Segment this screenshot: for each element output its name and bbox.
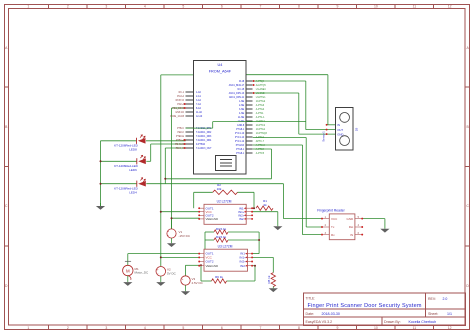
svg-text:Rst: Rst xyxy=(349,225,354,229)
svg-text:A-PTG4: A-PTG4 xyxy=(256,108,265,111)
svg-text:IN2-: IN2- xyxy=(239,217,245,221)
svg-text:U1-PTG1: U1-PTG1 xyxy=(256,97,266,99)
svg-text:9-PTB10: 9-PTB10 xyxy=(196,144,206,146)
svg-text:PYC1-14: PYC1-14 xyxy=(235,137,245,139)
svg-text:10-PTG2: 10-PTG2 xyxy=(256,101,266,103)
svg-text:C: C xyxy=(466,204,469,208)
svg-text:Tx: Tx xyxy=(331,225,335,229)
svg-text:M: M xyxy=(126,268,130,273)
svg-text:2018-03-30: 2018-03-30 xyxy=(322,312,340,316)
svg-text:10: 10 xyxy=(374,5,378,9)
svg-text:A-PTC-8: A-PTC-8 xyxy=(256,144,266,147)
U3 input pin arrows xyxy=(245,253,247,267)
title block frame xyxy=(303,293,465,325)
svg-text:PTB-C: PTB-C xyxy=(177,128,184,130)
svg-text:GND: GND xyxy=(347,217,355,221)
svg-text:1: 1 xyxy=(27,5,29,9)
voltage source V3 xyxy=(181,276,190,285)
ground: near U2 xyxy=(273,226,282,230)
resistor R1 xyxy=(256,206,273,210)
svg-text:APTC-7: APTC-7 xyxy=(256,140,265,143)
svg-text:LED8: LED8 xyxy=(129,148,137,152)
svg-text:PTG8-1: PTG8-1 xyxy=(236,129,245,131)
MCU left pin names xyxy=(196,91,212,150)
svg-text:2: 2 xyxy=(67,326,69,330)
svg-text:PC0E_1N-1B: PC0E_1N-1B xyxy=(170,116,184,118)
svg-text:12: 12 xyxy=(448,326,452,330)
svg-text:1/1: 1/1 xyxy=(447,312,452,316)
svg-text:T-0ADC1_DR2: T-0ADC1_DR2 xyxy=(196,131,212,134)
svg-text:6: 6 xyxy=(221,326,223,330)
svg-text:R8 1k: R8 1k xyxy=(267,275,271,283)
svg-text:B: B xyxy=(5,125,8,129)
svg-text:R4 5.1k: R4 5.1k xyxy=(216,235,227,239)
svg-text:5V DC: 5V DC xyxy=(167,271,177,275)
svg-text:IN: IN xyxy=(350,233,353,237)
svg-text:A-PTQ4: A-PTQ4 xyxy=(256,80,265,83)
resistor R2 xyxy=(213,190,238,194)
MCU right net labels xyxy=(256,80,268,155)
svg-text:Kocelia Cherfouh: Kocelia Cherfouh xyxy=(409,320,437,324)
svg-text:U3 L272M: U3 L272M xyxy=(218,245,233,249)
ground: M1 xyxy=(127,276,129,282)
svg-text:PD2-A: PD2-A xyxy=(177,103,184,106)
svg-text:T-0ADC1_DR3: T-0ADC1_DR3 xyxy=(196,135,212,138)
svg-text:8-A2: 8-A2 xyxy=(196,107,202,110)
ground: V3 xyxy=(185,285,187,291)
svg-text:RKST-R: RKST-R xyxy=(176,100,185,102)
svg-text:AA-PTQ5: AA-PTQ5 xyxy=(256,84,267,87)
U2 input pin arrows xyxy=(244,207,246,220)
svg-text:A-PTC4: A-PTC4 xyxy=(256,148,265,151)
svg-text:LED6: LED6 xyxy=(129,168,137,172)
svg-text:U2 L272M: U2 L272M xyxy=(217,200,232,204)
svg-text:U1-GNE: U1-GNE xyxy=(256,93,265,95)
junction dots xyxy=(100,160,102,162)
svg-text:PTG8-1: PTG8-1 xyxy=(236,153,245,155)
svg-text:A-PTG1: A-PTG1 xyxy=(256,136,265,139)
svg-text:11-NE: 11-NE xyxy=(238,117,245,119)
fingerprint reader pin names xyxy=(331,217,354,237)
svg-text:8: 8 xyxy=(298,326,300,330)
svg-text:R6 1k: R6 1k xyxy=(215,275,223,279)
ground: LED bus xyxy=(100,203,102,206)
svg-text:10-PTC2: 10-PTC2 xyxy=(256,125,266,127)
fingerprint reader unconnected flags xyxy=(321,218,323,220)
svg-text:A: A xyxy=(5,46,8,50)
svg-text:5: 5 xyxy=(182,5,184,9)
svg-text:2-NE: 2-NE xyxy=(239,105,245,107)
svg-text:GND: GND xyxy=(337,132,343,136)
voltage source V1 xyxy=(167,229,176,238)
svg-text:4: 4 xyxy=(144,326,146,330)
svg-text:T-1ADC3_OUT: T-1ADC3_OUT xyxy=(196,147,212,150)
wire: MCU left pin crossing chip body to connector OUT riser xyxy=(186,122,306,129)
svg-text:PE0-F: PE0-F xyxy=(177,132,184,134)
ground: fingerprint GND xyxy=(380,229,389,233)
svg-text:FROM_A64F: FROM_A64F xyxy=(209,70,232,74)
U2 pin stubs xyxy=(200,208,252,219)
svg-text:1B: 1B xyxy=(355,128,359,132)
svg-text:7-A2: 7-A2 xyxy=(196,103,202,106)
resistor R6 xyxy=(212,279,227,283)
svg-text:ANC1_DRV-13: ANC1_DRV-13 xyxy=(229,92,245,95)
resistor R3 xyxy=(214,230,228,234)
svg-text:2: 2 xyxy=(67,5,69,9)
svg-text:PYC1-12: PYC1-12 xyxy=(235,141,245,143)
MCU left pin stubs xyxy=(186,92,194,148)
MCU right pin stubs xyxy=(246,81,253,153)
svg-text:4-NE: 4-NE xyxy=(239,113,245,115)
svg-text:7: 7 xyxy=(259,326,261,330)
MCU U4 FROM_A64F body xyxy=(194,61,247,175)
svg-text:OUT: OUT xyxy=(337,128,343,132)
resistor R4 xyxy=(214,238,228,242)
connector P1 body xyxy=(336,108,354,151)
svg-text:10-PTG1: 10-PTG1 xyxy=(256,129,266,131)
svg-text:2.0: 2.0 xyxy=(443,297,448,301)
svg-text:11-A0: 11-A0 xyxy=(196,111,203,114)
svg-text:M-18: M-18 xyxy=(239,81,245,83)
svg-text:2-A1: 2-A1 xyxy=(196,95,202,98)
MCU left outside pin numbers xyxy=(170,92,185,150)
svg-text:−: − xyxy=(157,272,159,276)
wire: fingerprint GND to ground xyxy=(101,75,385,289)
svg-text:A-PT1-1: A-PT1-1 xyxy=(256,116,265,119)
svg-text:Fingerprint Reader: Fingerprint Reader xyxy=(317,208,345,212)
svg-text:D: D xyxy=(466,284,469,288)
svg-text:VEEGND: VEEGND xyxy=(206,217,220,221)
svg-text:12-A0: 12-A0 xyxy=(196,115,203,118)
svg-text:EasyEDA V5.3.2: EasyEDA V5.3.2 xyxy=(306,320,333,324)
ground: R8 xyxy=(269,288,278,292)
motor M1 shaft curl xyxy=(128,276,131,280)
svg-text:1-NE: 1-NE xyxy=(239,101,245,103)
U2 pin unconnected flags xyxy=(198,207,200,209)
MCU unconnected pin flags xyxy=(253,80,255,82)
svg-text:3-NE: 3-NE xyxy=(239,109,245,111)
svg-text:D: D xyxy=(5,284,8,288)
svg-text:VCC: VCC xyxy=(331,217,338,221)
svg-text:−: − xyxy=(167,234,169,238)
motor M1 xyxy=(123,265,133,275)
svg-text:NC-15: NC-15 xyxy=(238,89,245,91)
svg-text:11: 11 xyxy=(413,326,417,330)
svg-text:4: 4 xyxy=(144,5,146,9)
connector P1 mounting hole bottom xyxy=(340,136,350,146)
svg-text:−: − xyxy=(182,281,184,285)
svg-text:Sensor1: Sensor1 xyxy=(321,131,325,142)
svg-text:Drawn By:: Drawn By: xyxy=(384,320,401,324)
svg-text:3: 3 xyxy=(105,326,107,330)
svg-text:Finger Print Scanner Door Secu: Finger Print Scanner Door Security Syste… xyxy=(308,303,422,309)
op-amp U2 L272M body xyxy=(204,204,246,224)
svg-text:VEEGND: VEEGND xyxy=(206,264,220,268)
svg-text:PTG8-1: PTG8-1 xyxy=(236,149,245,151)
connector P1 mounting hole top xyxy=(340,113,350,123)
svg-text:4.5V DC: 4.5V DC xyxy=(192,281,204,285)
svg-text:6: 6 xyxy=(221,5,223,9)
ground: V1 xyxy=(171,238,173,243)
voltage source V2 xyxy=(156,267,166,277)
svg-text:PTG8-R: PTG8-R xyxy=(236,145,245,147)
svg-text:R3 5.1k: R3 5.1k xyxy=(216,227,227,231)
svg-text:REV:: REV: xyxy=(428,297,436,301)
svg-text:9: 9 xyxy=(336,326,338,330)
MCU crystal block xyxy=(216,156,237,171)
svg-text:U1-ANE4: U1-ANE4 xyxy=(256,88,266,91)
svg-text:Rx: Rx xyxy=(331,233,335,237)
svg-text:A-PT11: A-PT11 xyxy=(256,112,264,115)
svg-text:T-0ADC1_DR1: T-0ADC1_DR1 xyxy=(196,127,212,130)
svg-text:ANC1_BLW-17: ANC1_BLW-17 xyxy=(229,84,245,87)
svg-text:ANC1_DRV-11: ANC1_DRV-11 xyxy=(229,96,245,99)
svg-text:11: 11 xyxy=(413,5,417,9)
svg-text:C: C xyxy=(5,204,8,208)
svg-text:-15V DC: -15V DC xyxy=(179,234,191,238)
svg-text:Motor_DC: Motor_DC xyxy=(135,271,150,275)
svg-text:T-0ADC1_DR4: T-0ADC1_DR4 xyxy=(196,139,212,142)
LED LED6 xyxy=(137,155,146,165)
svg-text:PG3-A: PG3-A xyxy=(177,95,184,98)
connector P1 pin flags xyxy=(326,124,328,126)
svg-text:RC-1: RC-1 xyxy=(179,92,185,94)
svg-text:5: 5 xyxy=(182,326,184,330)
svg-text:TITLE:: TITLE: xyxy=(306,296,316,300)
fingerprint reader pin stubs xyxy=(323,219,362,235)
svg-text:IN2-: IN2- xyxy=(240,264,246,268)
resistor R8 xyxy=(271,273,275,287)
LED LED8 xyxy=(137,134,146,144)
svg-text:9: 9 xyxy=(336,5,338,9)
svg-text:Sheet:: Sheet: xyxy=(428,312,438,316)
svg-text:10: 10 xyxy=(374,326,378,330)
svg-text:3: 3 xyxy=(105,5,107,9)
svg-text:8: 8 xyxy=(298,5,300,9)
svg-text:10-PTNQ3: 10-PTNQ3 xyxy=(256,133,268,135)
ground: V2 xyxy=(160,276,162,282)
op-amp U3 L272M body xyxy=(204,249,248,271)
svg-text:IN: IN xyxy=(337,123,340,127)
U3 pin unconnected flags xyxy=(198,253,200,255)
svg-text:LED4: LED4 xyxy=(129,190,137,194)
svg-text:GNR-8: GNR-8 xyxy=(237,125,245,127)
svg-text:PE-K1-B: PE-K1-B xyxy=(175,144,184,146)
svg-text:3k: 3k xyxy=(263,203,267,207)
svg-text:A-PTG3: A-PTG3 xyxy=(256,104,265,107)
U3 pin stubs xyxy=(200,254,252,266)
svg-text:3-A2: 3-A2 xyxy=(196,99,202,102)
svg-text:1-A0: 1-A0 xyxy=(196,91,202,94)
MCU right pin names xyxy=(229,81,245,155)
svg-text:PYC1-10: PYC1-10 xyxy=(235,133,245,135)
svg-text:Date:: Date: xyxy=(306,312,315,316)
svg-text:PE-0-,O: PE-0-,O xyxy=(176,148,185,150)
svg-text:PTE0-E: PTE0-E xyxy=(176,136,185,138)
LED LED4 xyxy=(137,177,146,187)
svg-text:10k: 10k xyxy=(217,187,222,191)
svg-text:U4: U4 xyxy=(217,63,222,67)
svg-text:7: 7 xyxy=(259,5,261,9)
svg-text:A-PTC5: A-PTC5 xyxy=(256,152,265,155)
svg-text:PD1_D8I-B: PD1_D8I-B xyxy=(172,108,184,110)
svg-text:1: 1 xyxy=(27,326,29,330)
svg-text:GNP-1D: GNP-1D xyxy=(175,112,184,114)
svg-text:12: 12 xyxy=(448,5,452,9)
svg-text:PTB1-A: PTB1-A xyxy=(176,139,185,142)
fingerprint reader U5 body xyxy=(329,214,355,240)
fingerprint reader pin numbers xyxy=(325,216,360,235)
